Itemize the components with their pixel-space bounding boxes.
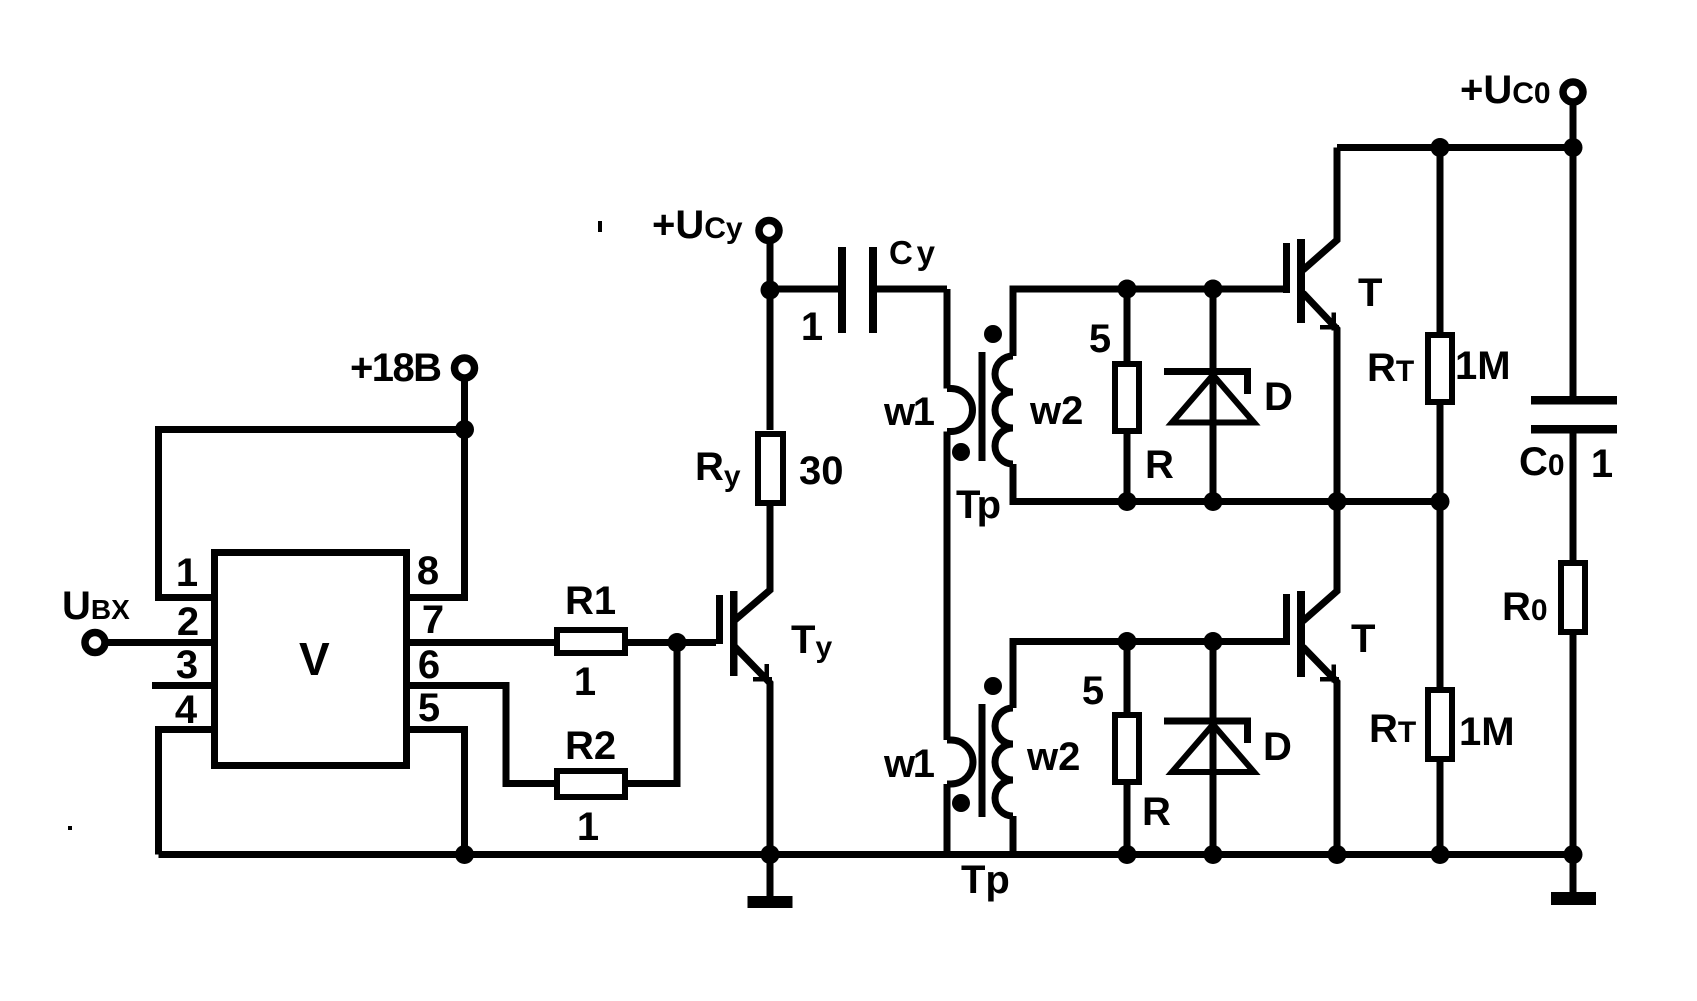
wire junction to Cy: [770, 286, 839, 293]
svg-text:RT: RT: [1367, 346, 1414, 390]
svg-text:w2: w2: [1029, 389, 1083, 433]
diode D bottom lead: [1210, 642, 1217, 855]
transformer Tp2 phase dot w2: [984, 677, 1002, 695]
stray mark left: [68, 826, 72, 830]
node Ty base junction: [668, 633, 687, 652]
node bottom rail right junction: [1564, 845, 1583, 864]
transistor T bottom gate bar: [1283, 594, 1290, 645]
capacitor Cy left plate: [838, 247, 846, 333]
transformer Tp1 phase dot w2: [984, 325, 1002, 343]
wire +18B drop to pin 8: [410, 378, 465, 598]
svg-text:UBX: UBX: [62, 584, 130, 628]
wire pin4 to ground rail: [159, 730, 212, 855]
svg-text:+UC0: +UC0: [1460, 68, 1551, 112]
svg-text:Cy: Cy: [889, 234, 936, 271]
terminal +UCy: [759, 221, 779, 241]
diode D top triangle: [1172, 375, 1254, 423]
svg-text:R2: R2: [565, 724, 616, 768]
resistor R bottom: [1115, 715, 1139, 782]
transistor T bottom body bar: [1297, 591, 1305, 677]
svg-text:+UCy: +UCy: [652, 203, 743, 247]
wire pin5 to bottom rail: [410, 730, 465, 855]
node T top emitter rail junction: [1328, 492, 1347, 511]
svg-text:2: 2: [177, 600, 199, 644]
transformer Tp1 phase dot w1: [952, 443, 970, 461]
transformer Tp2 winding w1: [947, 740, 973, 855]
transformer Tp2 core: [979, 704, 986, 817]
node R bottom rail junction: [1118, 845, 1137, 864]
terminal UBX input: [85, 633, 105, 653]
svg-text:1: 1: [801, 305, 823, 349]
node Ty emitter rail junction: [761, 845, 780, 864]
wire R0 to bottom rail: [1570, 634, 1577, 855]
transistor T bottom emitter: [1303, 647, 1337, 855]
node +UC0 rail junction: [1564, 138, 1583, 157]
svg-text:Tp: Tp: [956, 483, 1001, 527]
transistor T top collector: [1303, 148, 1337, 271]
svg-text:7: 7: [422, 598, 444, 642]
transistor Ty emitter arrow: [765, 664, 770, 682]
svg-text:C0: C0: [1519, 440, 1565, 484]
transistor Ty gate bar: [716, 595, 723, 644]
svg-text:5: 5: [1089, 317, 1111, 361]
svg-text:6: 6: [418, 643, 440, 687]
svg-text:D: D: [1263, 725, 1292, 769]
wire R2 to base junction: [628, 643, 677, 784]
transistor T top emitter: [1303, 293, 1337, 502]
svg-text:1: 1: [577, 805, 599, 849]
svg-text:RT: RT: [1369, 707, 1416, 751]
node +18B junction: [455, 420, 474, 439]
transformer Tp2 phase dot w1: [952, 794, 970, 812]
wire bottom rail: [159, 851, 1574, 858]
capacitor C0 bottom plate: [1531, 425, 1617, 434]
svg-text:1: 1: [574, 660, 596, 704]
wire pin1 loop to +18B rail: [159, 430, 465, 598]
wire pin2 from UBX: [107, 639, 211, 646]
transformer Tp2 winding w2: [995, 708, 1013, 816]
svg-text:1: 1: [1591, 442, 1613, 486]
resistor RT top: [1428, 335, 1452, 402]
transistor Ty body bar: [730, 591, 738, 676]
resistor R2: [557, 771, 625, 797]
svg-text:1M: 1M: [1455, 344, 1511, 388]
wire w2 top to gate T bottom: [1013, 642, 1283, 709]
diode D bottom cathode bar: [1164, 721, 1248, 743]
transistor Ty emitter: [735, 647, 770, 855]
transistor T top gate bar: [1283, 243, 1290, 293]
svg-text:T: T: [1351, 617, 1375, 661]
diode D top lead: [1210, 289, 1217, 502]
node pin5 rail junction: [455, 845, 474, 864]
wire top rail: [1337, 144, 1573, 151]
wire w2 top to gate T top: [1013, 289, 1283, 356]
resistor R top: [1115, 364, 1139, 431]
transistor T top body bar: [1297, 239, 1305, 323]
node R top rail junction: [1118, 492, 1137, 511]
resistor R bottom leads: [1124, 642, 1131, 855]
svg-text:Tp: Tp: [961, 858, 1010, 902]
wire Cy to transformer w1: [877, 286, 947, 293]
transformer Tp1 winding w1: [947, 289, 973, 740]
node D bottom rail junction: [1204, 845, 1223, 864]
resistor R1: [557, 630, 625, 653]
svg-text:1M: 1M: [1459, 710, 1515, 754]
terminal +18B: [455, 358, 475, 378]
node T bottom emitter rail junction: [1328, 845, 1347, 864]
wire +UCy to Ry: [767, 242, 774, 430]
ground right: [1570, 855, 1577, 894]
node D top gate junction: [1204, 280, 1223, 299]
svg-text:5: 5: [418, 686, 440, 730]
transformer Tp1 core: [979, 352, 986, 461]
transistor Ty collector: [735, 505, 770, 620]
terminal +UC0: [1563, 82, 1583, 102]
resistor Ry: [758, 434, 783, 503]
svg-text:4: 4: [175, 688, 198, 732]
svg-text:Ry: Ry: [695, 445, 741, 493]
svg-text:Ty: Ty: [791, 618, 832, 664]
svg-text:5: 5: [1082, 669, 1104, 713]
svg-text:30: 30: [799, 449, 844, 493]
wire pin3 stub: [152, 682, 211, 689]
svg-text:+18B: +18B: [350, 346, 442, 390]
ground left: [767, 855, 774, 898]
stray mark near +UCy: [598, 221, 602, 232]
wire R1 to Ty base: [628, 639, 716, 646]
transformer Tp1 winding w2: [995, 356, 1013, 464]
svg-text:8: 8: [417, 549, 439, 593]
svg-text:D: D: [1264, 375, 1293, 419]
svg-text:R0: R0: [1502, 585, 1548, 629]
wire pin6 to R2: [410, 686, 554, 784]
resistor RT bottom leads: [1437, 502, 1444, 855]
svg-text:R1: R1: [565, 579, 616, 623]
capacitor Cy right plate: [869, 247, 877, 333]
svg-text:w2: w2: [1026, 735, 1080, 779]
svg-text:w1: w1: [883, 742, 935, 786]
IC U1 box V: [215, 553, 407, 766]
svg-text:V: V: [299, 633, 330, 685]
node D top rail junction: [1204, 492, 1223, 511]
diode D top cathode bar: [1164, 372, 1248, 395]
transistor T bottom emitter arrow: [1332, 665, 1337, 683]
resistor R0: [1561, 563, 1585, 632]
node RT bottom rail junction: [1431, 845, 1450, 864]
svg-text:R: R: [1145, 443, 1174, 487]
transistor T top emitter arrow: [1332, 313, 1337, 331]
wire C0 to R0: [1570, 433, 1577, 561]
wire pin7 to R1: [410, 639, 554, 646]
svg-text:T: T: [1358, 271, 1382, 315]
svg-text:3: 3: [176, 643, 198, 687]
svg-text:w1: w1: [883, 390, 935, 434]
node D bottom gate junction: [1204, 632, 1223, 651]
diode D bottom triangle: [1172, 725, 1254, 773]
node Cy junction: [761, 281, 780, 300]
svg-text:R: R: [1142, 790, 1171, 834]
resistor R top leads: [1124, 289, 1131, 502]
resistor RT bottom: [1428, 690, 1452, 759]
wire w2 bottom to mid rail: [1013, 464, 1440, 502]
resistor RT top leads: [1437, 148, 1444, 502]
node RT top rail junction: [1431, 138, 1450, 157]
capacitor C0 top plate: [1531, 396, 1617, 405]
node R bottom gate junction: [1118, 632, 1137, 651]
transistor T bottom collector: [1303, 502, 1337, 622]
node R top gate junction: [1118, 280, 1137, 299]
wire +UC0 down to C0: [1570, 103, 1577, 396]
svg-text:1: 1: [176, 551, 198, 595]
node RT top mid rail junction: [1431, 492, 1450, 511]
wire w2 bottom to rail: [1010, 816, 1017, 855]
